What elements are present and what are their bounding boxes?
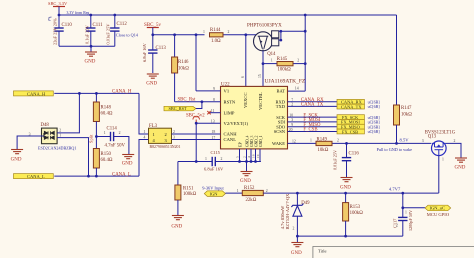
svg-text:SCSN: SCSN <box>274 129 286 134</box>
power flag SBC_5v2 <box>186 114 205 124</box>
resistor R152 <box>237 186 268 203</box>
wire D48 pin3 to ground <box>17 136 43 149</box>
wire CANL <box>172 139 221 141</box>
transistor Q13 <box>422 131 456 162</box>
wire 5V rail <box>153 34 205 36</box>
svg-text:Q13: Q13 <box>428 135 437 140</box>
svg-text:1: 1 <box>205 157 207 161</box>
svg-text:1: 1 <box>310 139 312 143</box>
svg-text:2: 2 <box>173 130 175 134</box>
transistor Q14 <box>247 24 282 58</box>
wire CANA_L <box>54 140 148 177</box>
svg-text:C113: C113 <box>156 46 167 51</box>
svg-text:Title: Title <box>318 249 327 254</box>
svg-text:uC[6B]: uC[6B] <box>368 104 381 109</box>
port FX_SCK <box>337 115 380 120</box>
svg-text:IGN: IGN <box>210 191 219 196</box>
port FX_MOSI <box>337 120 380 125</box>
svg-text:100kΩ: 100kΩ <box>183 192 197 197</box>
svg-text:GND: GND <box>455 166 466 171</box>
svg-text:R147: R147 <box>401 106 412 111</box>
wire R151 elbow <box>177 162 179 186</box>
wire 3.3V top rail <box>59 15 397 105</box>
resistor R148 <box>93 93 112 136</box>
svg-text:10kΩ: 10kΩ <box>401 113 412 118</box>
svg-text:R150: R150 <box>101 152 112 157</box>
svg-text:TXD: TXD <box>276 104 286 109</box>
svg-text:4.7nF 50V: 4.7nF 50V <box>105 143 126 148</box>
svg-text:CANA_TX: CANA_TX <box>301 102 324 107</box>
svg-text:GND: GND <box>122 161 133 166</box>
svg-text:Close to Q14: Close to Q14 <box>116 32 139 37</box>
ground Q13 <box>455 158 468 171</box>
wire entry mark <box>49 17 52 21</box>
wire V2 <box>196 122 220 124</box>
svg-text:100kΩ: 100kΩ <box>350 211 364 216</box>
wire cap bank bottom rail <box>59 45 115 47</box>
wire bottom RC net <box>297 235 402 237</box>
svg-text:GND_2: GND_2 <box>254 135 258 147</box>
svg-text:BZT52H-A4V7-QX: BZT52H-A4V7-QX <box>285 193 290 230</box>
svg-text:MCU GPIO: MCU GPIO <box>427 212 450 217</box>
wire V1 <box>196 35 221 91</box>
svg-text:1: 1 <box>104 131 106 135</box>
svg-text:3: 3 <box>422 139 424 143</box>
svg-text:6.8uF 16V: 6.8uF 16V <box>204 167 224 172</box>
capacitor C114 <box>96 127 128 155</box>
capacitor C111 <box>84 15 103 46</box>
wire VEXCC vertical <box>245 35 247 87</box>
svg-text:GND: GND <box>240 179 251 184</box>
svg-text:Pull to GND to wake: Pull to GND to wake <box>377 147 413 152</box>
wire SCSN <box>288 131 338 133</box>
svg-text:R151: R151 <box>183 187 194 192</box>
svg-text:GND_1: GND_1 <box>259 135 263 147</box>
port IGN_uC <box>425 205 451 217</box>
wire WAKE <box>288 142 432 144</box>
svg-text:15: 15 <box>258 74 262 78</box>
svg-text:WAKE: WAKE <box>272 141 285 146</box>
op-amp U22 body <box>211 74 306 149</box>
node D49 bottom junction <box>296 235 299 238</box>
diode D48 ESD2CAN24DBZRQ1 <box>29 123 77 150</box>
capacitor C112 <box>105 15 127 46</box>
capacitor C116 <box>333 143 360 177</box>
diode D49 zener <box>280 193 310 236</box>
svg-text:6.8uF 16V: 6.8uF 16V <box>142 42 147 62</box>
svg-text:2: 2 <box>242 156 246 158</box>
svg-text:FX_CSB: FX_CSB <box>342 129 358 134</box>
port CANA_H <box>14 91 54 96</box>
wire R144 to Q14 <box>224 34 257 36</box>
svg-text:PHPT61003PYX: PHPT61003PYX <box>247 24 282 29</box>
wire Q14 base down to VECTRL <box>262 51 264 87</box>
IC bottom pin stubs EP GND <box>240 149 261 162</box>
svg-text:10kΩ: 10kΩ <box>318 148 329 153</box>
svg-text:0.1uF 25V: 0.1uF 25V <box>84 24 89 44</box>
port CANA_RX <box>337 99 380 104</box>
svg-text:4.7V7: 4.7V7 <box>389 187 401 192</box>
resistor R153 <box>343 193 364 236</box>
svg-text:CANA_L: CANA_L <box>27 174 45 179</box>
svg-text:BAT: BAT <box>276 89 285 94</box>
svg-text:2: 2 <box>337 139 339 143</box>
svg-text:2: 2 <box>228 30 230 34</box>
svg-text:CANL: CANL <box>224 137 237 142</box>
node bottom RC junction <box>344 235 347 238</box>
node RSTN junction <box>201 100 204 103</box>
svg-text:2: 2 <box>59 129 61 133</box>
node Q14 base R145 junction <box>262 62 265 65</box>
svg-text:C112: C112 <box>117 22 128 27</box>
svg-text:2: 2 <box>119 131 121 135</box>
resistor R150 <box>93 137 112 177</box>
svg-text:SBC_Rst: SBC_Rst <box>178 98 197 103</box>
port CANA_TX <box>337 104 380 109</box>
svg-text:2: 2 <box>396 224 398 228</box>
svg-text:1: 1 <box>237 189 239 193</box>
node BAT vertical junctions <box>304 30 307 65</box>
wire C115 net <box>178 161 261 163</box>
node CANA_L junctions <box>87 175 98 178</box>
svg-text:2: 2 <box>221 157 223 161</box>
node 3.3V rail junctions <box>58 14 307 17</box>
svg-text:SBC_RST: SBC_RST <box>169 106 188 111</box>
ground IC EP <box>240 162 253 185</box>
svg-text:VECTRL: VECTRL <box>258 92 263 110</box>
svg-text:1: 1 <box>271 58 273 62</box>
svg-text:Split: Split <box>89 134 94 143</box>
svg-text:C110: C110 <box>62 23 73 28</box>
wire SCK <box>288 116 338 118</box>
pin numbers IC bottom <box>235 154 259 158</box>
svg-text:GND: GND <box>85 60 96 65</box>
svg-text:14: 14 <box>295 86 299 90</box>
wire Q14 tab to BAT vertical <box>279 31 305 40</box>
svg-text:R148: R148 <box>101 106 112 111</box>
svg-text:UJA1169ATK_FZ: UJA1169ATK_FZ <box>265 78 306 84</box>
capacitor C113 <box>142 35 166 73</box>
node V2 junction <box>195 122 198 125</box>
port FX_MISO <box>337 124 380 129</box>
node bottom rail junction <box>90 45 93 48</box>
svg-text:GND: GND <box>340 185 351 190</box>
svg-text:GND: GND <box>171 225 182 230</box>
svg-text:CANA_H: CANA_H <box>112 90 132 95</box>
svg-text:60.4Ω: 60.4Ω <box>101 112 113 117</box>
svg-text:1: 1 <box>153 132 155 137</box>
capacitor C110 <box>53 15 73 46</box>
svg-text:2: 2 <box>454 139 456 143</box>
svg-text:GND: GND <box>146 82 157 87</box>
node split junction <box>95 135 98 138</box>
inductor FL3 common mode choke <box>144 124 181 149</box>
node IGN net junctions <box>296 192 404 195</box>
node 5V rail junctions <box>151 33 247 36</box>
svg-text:1: 1 <box>59 134 61 138</box>
svg-text:EP: EP <box>237 142 242 147</box>
ground C114 <box>122 155 135 167</box>
wire V2 vertical to C115 <box>195 123 197 161</box>
svg-text:R153: R153 <box>350 205 361 210</box>
ground D48 <box>11 150 24 163</box>
svg-text:RSTN: RSTN <box>224 100 236 105</box>
wire IGN_uC <box>403 207 425 209</box>
ground cap bank <box>85 46 98 64</box>
svg-text:60.4Ω: 60.4Ω <box>101 158 113 163</box>
svg-text:CANA_H: CANA_H <box>27 91 46 96</box>
node CANA_H junctions <box>78 92 98 95</box>
wire Q13 source to ground <box>446 143 461 157</box>
svg-text:1: 1 <box>442 158 444 162</box>
wire SDI <box>288 121 338 123</box>
capacitor C117 <box>393 193 414 236</box>
svg-text:LIMP: LIMP <box>224 110 235 115</box>
wire Q13 gate <box>438 156 440 194</box>
svg-text:C115: C115 <box>211 150 221 155</box>
wire BAT pin <box>288 90 306 92</box>
port FX_CSB <box>337 129 380 134</box>
wire CANA_H <box>54 93 148 134</box>
svg-text:3.3V from Reg: 3.3V from Reg <box>67 11 90 15</box>
svg-text:Q14: Q14 <box>267 52 276 57</box>
wire RXD <box>288 101 338 103</box>
svg-text:10kΩ: 10kΩ <box>178 67 189 72</box>
svg-text:8.5V: 8.5V <box>400 138 410 143</box>
port SBC_RST <box>164 102 202 111</box>
svg-text:GND_3: GND_3 <box>250 135 254 147</box>
svg-text:C116: C116 <box>349 152 360 157</box>
svg-text:D48: D48 <box>41 123 50 128</box>
svg-text:CANA_TX: CANA_TX <box>341 104 362 109</box>
svg-text:0.01uF 25V: 0.01uF 25V <box>333 150 338 170</box>
svg-text:1: 1 <box>203 30 205 34</box>
svg-text:CANH: CANH <box>224 132 238 137</box>
svg-text:GND_4: GND_4 <box>245 135 249 147</box>
svg-text:2: 2 <box>293 227 295 231</box>
port CANA_L <box>14 174 54 179</box>
svg-text:22uF 25V 20%: 22uF 25V 20% <box>53 18 58 45</box>
title block <box>313 247 474 258</box>
no-ERC cross LIMP <box>207 111 210 114</box>
resistor R145 <box>263 57 305 72</box>
svg-text:uC[6B]: uC[6B] <box>368 129 381 134</box>
resistor R149 <box>310 138 339 153</box>
svg-text:5: 5 <box>235 156 239 158</box>
wire RSTN <box>175 101 221 103</box>
svg-text:CANA_L: CANA_L <box>112 172 131 177</box>
svg-text:V2/VEXT(1): V2/VEXT(1) <box>224 121 249 126</box>
svg-text:C111: C111 <box>93 23 104 28</box>
svg-text:4: 4 <box>144 136 146 140</box>
svg-text:9-36V Input: 9-36V Input <box>202 185 224 190</box>
svg-text:2: 2 <box>297 58 299 62</box>
svg-text:1: 1 <box>144 130 146 134</box>
svg-text:1200pF 50V: 1200pF 50V <box>408 210 413 231</box>
ground C116 <box>340 178 353 191</box>
svg-text:VEXCC: VEXCC <box>243 92 248 108</box>
ground C113 <box>146 74 159 87</box>
node EP bus junctions <box>245 160 257 163</box>
svg-text:1.0Ω: 1.0Ω <box>211 39 221 44</box>
wire LIMP stub <box>209 112 220 114</box>
svg-text:0.01uF 25V: 0.01uF 25V <box>105 23 110 45</box>
resistor R147 <box>394 105 413 143</box>
ground R151 <box>171 216 184 230</box>
svg-text:F_CSB: F_CSB <box>303 128 317 133</box>
wire BAT vertical <box>304 15 306 91</box>
port IGN <box>204 191 225 197</box>
node WAKE junctions <box>345 142 398 145</box>
resistor R146 <box>172 35 190 102</box>
svg-text:GND: GND <box>11 158 22 163</box>
node C115 wire junctions <box>195 160 241 163</box>
svg-text:V1: V1 <box>224 89 230 94</box>
svg-text:C114: C114 <box>107 127 118 132</box>
svg-text:SBC_3.3V: SBC_3.3V <box>48 1 68 6</box>
svg-text:100kΩ: 100kΩ <box>278 67 292 72</box>
wire CANH <box>172 133 221 135</box>
ground D49 <box>291 236 304 256</box>
resistor R144 <box>203 28 230 44</box>
svg-text:R146: R146 <box>178 60 189 65</box>
svg-text:6: 6 <box>241 76 245 78</box>
svg-text:ESD2CAN24DBZRQ1: ESD2CAN24DBZRQ1 <box>38 145 76 150</box>
svg-text:2: 2 <box>165 132 167 137</box>
capacitor C115 <box>204 150 224 172</box>
svg-text:16: 16 <box>251 154 255 158</box>
svg-text:19: 19 <box>256 154 260 158</box>
node IGN_uC branch junction <box>401 206 404 209</box>
svg-text:IGN_uC: IGN_uC <box>430 206 446 211</box>
power flag SBC_3.3V <box>48 1 68 15</box>
wire IGN sense net <box>263 192 438 194</box>
svg-text:GND: GND <box>291 251 302 256</box>
wire D48 pin2 to CANA_H <box>57 93 79 132</box>
svg-text:4: 4 <box>247 156 251 158</box>
svg-text:1: 1 <box>405 211 407 215</box>
wire D48 pin1 to CANA_L <box>57 138 88 177</box>
wire SDO <box>288 126 338 128</box>
power flag SBC_5v <box>144 23 161 35</box>
resistor R151 <box>175 185 197 215</box>
wire IGN to R152 <box>225 192 242 194</box>
svg-text:22kΩ: 22kΩ <box>246 198 257 203</box>
svg-text:B82790S0513N201: B82790S0513N201 <box>150 145 181 149</box>
svg-text:2: 2 <box>266 189 268 193</box>
wire TXD <box>288 105 338 107</box>
